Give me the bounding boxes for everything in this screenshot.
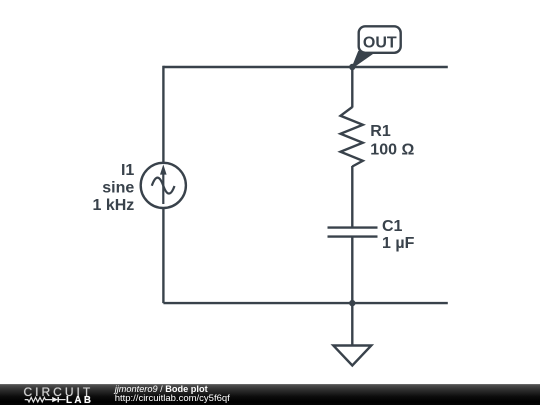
label 1 uF: [382, 235, 415, 252]
wire ground stub: [351, 303, 353, 345]
node OUT junction dot: [349, 64, 355, 70]
flag OUT box: [359, 26, 401, 53]
wire left vertical upper: [162, 66, 164, 162]
node bottom junction dot: [349, 300, 355, 306]
resistor R1: [341, 107, 363, 167]
wire resistor to capacitor: [351, 166, 353, 228]
label 1 kHz: [93, 197, 135, 214]
logo LAB text: [66, 396, 93, 406]
current source I1: [141, 163, 186, 208]
svg-text:sine: sine: [102, 179, 134, 196]
label I1: [121, 162, 134, 179]
footer author/title line: [115, 385, 208, 395]
footer bar: [0, 384, 540, 405]
wire left vertical lower: [162, 209, 164, 303]
ground: [333, 346, 371, 366]
label sine: [102, 179, 134, 196]
wire top horizontal: [163, 66, 447, 68]
footer url line: [115, 394, 230, 404]
svg-text:1 µF: 1 µF: [382, 235, 415, 252]
svg-text:OUT: OUT: [363, 34, 397, 51]
svg-text:C1: C1: [382, 218, 403, 235]
wire middle vertical top: [351, 67, 353, 108]
flag OUT tail: [352, 52, 375, 68]
logo CIRCUIT text: [24, 388, 94, 398]
capacitor C1: [328, 228, 378, 237]
wire capacitor to bottom: [351, 237, 353, 304]
label R1: [370, 123, 391, 140]
svg-text:100 Ω: 100 Ω: [370, 141, 414, 158]
label 100 ohm: [370, 141, 414, 158]
svg-text:I1: I1: [121, 162, 134, 179]
svg-text:R1: R1: [370, 123, 391, 140]
label C1: [382, 218, 403, 235]
wire bottom horizontal: [163, 302, 447, 304]
svg-text:1 kHz: 1 kHz: [93, 197, 135, 214]
logo resistor-diode glyph: [22, 394, 70, 405]
